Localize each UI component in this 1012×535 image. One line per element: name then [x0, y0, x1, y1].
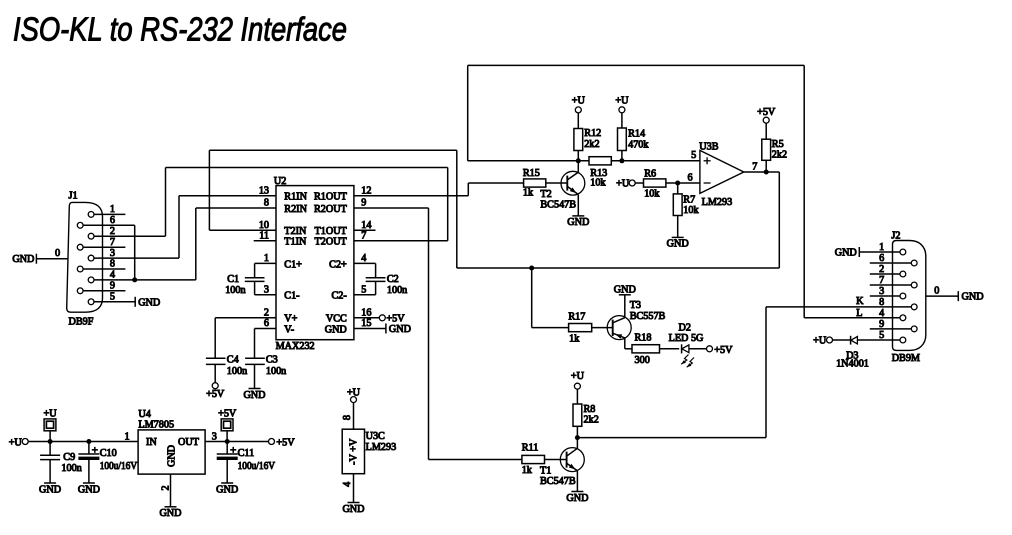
svg-text:2k2: 2k2 — [584, 139, 599, 150]
svg-text:BC557B: BC557B — [630, 311, 666, 322]
svg-text:C1: C1 — [227, 274, 239, 285]
svg-text:0: 0 — [55, 248, 60, 259]
svg-text:+U: +U — [615, 95, 629, 106]
svg-text:16: 16 — [361, 308, 371, 319]
svg-text:1: 1 — [125, 432, 130, 443]
svg-text:C4: C4 — [227, 355, 239, 366]
svg-text:+5V: +5V — [757, 107, 776, 118]
svg-text:T3: T3 — [630, 300, 641, 311]
svg-text:GND: GND — [167, 445, 178, 467]
svg-text:GND: GND — [78, 484, 100, 495]
svg-text:14: 14 — [361, 220, 371, 231]
svg-text:OUT: OUT — [178, 437, 200, 448]
svg-text:BC547B: BC547B — [540, 476, 576, 487]
svg-text:2: 2 — [879, 264, 884, 275]
svg-text:T2OUT: T2OUT — [315, 237, 348, 248]
svg-text:4: 4 — [110, 270, 115, 281]
svg-text:R18: R18 — [635, 333, 652, 344]
svg-text:100n: 100n — [227, 366, 247, 377]
svg-text:2: 2 — [110, 226, 115, 237]
svg-text:5: 5 — [110, 292, 115, 303]
svg-text:6: 6 — [264, 318, 269, 329]
svg-text:4: 4 — [879, 308, 884, 319]
svg-text:LED 5G: LED 5G — [669, 333, 704, 344]
svg-text:BC547B: BC547B — [540, 199, 576, 210]
svg-text:+U: +U — [571, 371, 585, 382]
svg-text:T1OUT: T1OUT — [315, 226, 348, 237]
svg-text:R5: R5 — [772, 139, 784, 150]
svg-text:1k: 1k — [523, 188, 534, 199]
svg-text:GND: GND — [667, 239, 689, 250]
svg-text:+: + — [92, 444, 98, 456]
svg-text:5: 5 — [879, 330, 884, 341]
svg-text:8: 8 — [879, 297, 884, 308]
svg-text:T1IN: T1IN — [284, 237, 307, 248]
svg-text:100n: 100n — [225, 285, 245, 296]
svg-text:DB9F: DB9F — [69, 317, 94, 328]
svg-text:10: 10 — [259, 220, 269, 231]
svg-text:1k: 1k — [569, 333, 580, 344]
svg-text:10k: 10k — [590, 178, 606, 189]
svg-text:100u/16V: 100u/16V — [100, 461, 138, 472]
svg-text:0: 0 — [934, 286, 939, 297]
svg-text:R2OUT: R2OUT — [314, 204, 348, 215]
svg-text:C1+: C1+ — [284, 259, 302, 270]
svg-text:1: 1 — [879, 242, 884, 253]
svg-text:L: L — [856, 308, 862, 319]
svg-text:R14: R14 — [628, 129, 645, 140]
svg-text:7: 7 — [752, 162, 757, 173]
svg-text:U2: U2 — [274, 176, 286, 187]
svg-text:GND: GND — [566, 493, 588, 504]
svg-text:+U: +U — [44, 408, 58, 419]
svg-text:LM7805: LM7805 — [138, 420, 174, 431]
svg-text:C2+: C2+ — [329, 259, 347, 270]
svg-text:+U: +U — [616, 179, 630, 190]
svg-text:8: 8 — [264, 198, 269, 209]
svg-text:ISO-KL to RS-232 Interface: ISO-KL to RS-232 Interface — [13, 12, 347, 49]
svg-text:11: 11 — [259, 231, 269, 242]
svg-text:GND: GND — [39, 484, 61, 495]
svg-text:T1: T1 — [540, 466, 551, 477]
svg-text:3: 3 — [110, 248, 115, 259]
svg-text:+5V: +5V — [386, 314, 405, 325]
svg-text:3: 3 — [264, 285, 269, 296]
svg-text:1N4001: 1N4001 — [836, 358, 869, 369]
svg-text:7: 7 — [110, 237, 115, 248]
svg-text:10k: 10k — [683, 205, 699, 216]
svg-text:470k: 470k — [628, 139, 649, 150]
svg-text:1: 1 — [264, 253, 269, 264]
svg-text:T2: T2 — [540, 189, 551, 200]
svg-text:U4: U4 — [138, 409, 150, 420]
svg-text:100n: 100n — [61, 463, 81, 474]
svg-text:C9: C9 — [63, 452, 75, 463]
svg-text:+U: +U — [813, 336, 827, 347]
svg-text:R1IN: R1IN — [284, 192, 307, 203]
svg-text:3: 3 — [212, 432, 217, 443]
svg-text:9: 9 — [110, 281, 115, 292]
svg-text:13: 13 — [259, 185, 269, 196]
svg-text:8: 8 — [110, 259, 115, 270]
svg-text:R12: R12 — [584, 128, 601, 139]
svg-text:C2: C2 — [387, 274, 399, 285]
svg-text:15: 15 — [361, 318, 371, 329]
svg-text:K: K — [856, 296, 864, 307]
svg-text:C10: C10 — [100, 448, 117, 459]
svg-text:+: + — [230, 444, 236, 456]
svg-text:4: 4 — [342, 482, 353, 487]
svg-text:+5V: +5V — [276, 438, 295, 449]
svg-text:10k: 10k — [644, 188, 660, 199]
svg-text:C1-: C1- — [284, 291, 300, 302]
svg-text:GND: GND — [342, 504, 364, 515]
svg-text:GND: GND — [138, 297, 160, 308]
svg-text:2k2: 2k2 — [584, 415, 599, 426]
svg-text:+5V: +5V — [218, 408, 237, 419]
svg-text:6: 6 — [688, 173, 693, 184]
svg-text:6: 6 — [879, 253, 884, 264]
svg-text:GND: GND — [243, 390, 265, 401]
svg-text:+U: +U — [9, 438, 23, 449]
svg-text:100n: 100n — [387, 285, 407, 296]
svg-text:GND: GND — [389, 324, 411, 335]
svg-text:DB9M: DB9M — [892, 353, 920, 364]
svg-text:+U: +U — [347, 387, 361, 398]
svg-text:7: 7 — [879, 275, 884, 286]
svg-text:R11: R11 — [522, 442, 539, 453]
svg-text:U3B: U3B — [699, 141, 718, 152]
svg-text:4: 4 — [361, 253, 366, 264]
svg-text:12: 12 — [361, 185, 371, 196]
svg-text:+5V: +5V — [714, 345, 733, 356]
svg-text:R1OUT: R1OUT — [314, 192, 348, 203]
svg-text:GND: GND — [159, 508, 181, 519]
svg-text:C11: C11 — [238, 448, 255, 459]
svg-text:R6: R6 — [644, 168, 656, 179]
svg-text:GND: GND — [12, 254, 34, 265]
svg-text:1: 1 — [110, 204, 115, 215]
svg-text:LM293: LM293 — [366, 442, 397, 453]
svg-text:VCC: VCC — [326, 314, 347, 325]
svg-text:T2IN: T2IN — [284, 226, 307, 237]
svg-text:6: 6 — [110, 215, 115, 226]
svg-text:LM293: LM293 — [702, 197, 733, 208]
svg-text:GND: GND — [216, 484, 238, 495]
svg-text:MAX232: MAX232 — [276, 341, 315, 352]
svg-text:5: 5 — [691, 150, 696, 161]
svg-text:V-: V- — [284, 324, 294, 335]
svg-text:GND: GND — [835, 248, 857, 259]
svg-text:R2IN: R2IN — [284, 204, 307, 215]
svg-text:7: 7 — [361, 231, 366, 242]
svg-text:100u/16V: 100u/16V — [238, 461, 276, 472]
svg-text:9: 9 — [361, 198, 366, 209]
svg-text:U3C: U3C — [366, 431, 385, 442]
svg-text:V+: V+ — [284, 314, 297, 325]
svg-text:GND: GND — [962, 292, 984, 303]
svg-text:100n: 100n — [266, 366, 286, 377]
svg-text:-V +V: -V +V — [348, 438, 359, 465]
svg-text:C2-: C2- — [332, 291, 348, 302]
svg-text:9: 9 — [879, 319, 884, 330]
svg-text:R7: R7 — [683, 194, 695, 205]
svg-text:3: 3 — [879, 286, 884, 297]
svg-text:8: 8 — [342, 415, 353, 420]
svg-text:2: 2 — [161, 485, 172, 490]
svg-text:300: 300 — [635, 355, 650, 366]
svg-text:+U: +U — [572, 95, 586, 106]
svg-text:GND: GND — [567, 217, 589, 228]
svg-text:R8: R8 — [584, 404, 596, 415]
svg-text:1k: 1k — [522, 465, 533, 476]
svg-text:+5V: +5V — [206, 389, 225, 400]
svg-text:5: 5 — [361, 285, 366, 296]
svg-text:GND: GND — [614, 285, 636, 296]
svg-text:2: 2 — [264, 308, 269, 319]
svg-text:R15: R15 — [523, 168, 540, 179]
svg-text:2k2: 2k2 — [772, 150, 787, 161]
svg-text:GND: GND — [325, 324, 347, 335]
svg-text:R17: R17 — [568, 312, 585, 323]
svg-text:C3: C3 — [266, 355, 278, 366]
svg-text:J2: J2 — [891, 231, 900, 242]
svg-text:J1: J1 — [69, 190, 78, 201]
svg-text:IN: IN — [146, 437, 157, 448]
